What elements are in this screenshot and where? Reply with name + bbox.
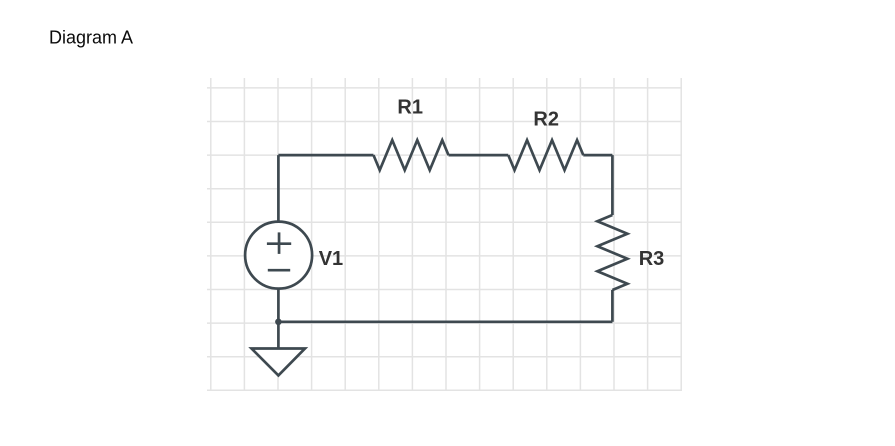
svg-text:R2: R2 (533, 108, 559, 130)
junction node (275, 319, 282, 326)
svg-text:Diagram A: Diagram A (49, 28, 133, 48)
voltage source V1 (245, 222, 312, 289)
wire: right vertical from R3 to bottom corner (611, 290, 614, 322)
background grid (decorative) (207, 78, 682, 390)
wire: bottom horizontal (278, 320, 612, 323)
ground (252, 349, 306, 376)
svg-text:R3: R3 (639, 248, 665, 270)
wire: V1 bottom to ground (277, 289, 280, 349)
wire: right vertical down to R3 (611, 155, 614, 215)
svg-text:V1: V1 (319, 248, 343, 270)
resistor R1 (374, 140, 449, 170)
wire: top segment from left corner to R1 (278, 154, 373, 157)
wire: left vertical (top corner to V1 top) (277, 155, 280, 222)
resistor R3 (597, 215, 627, 290)
resistor R2 (508, 140, 583, 170)
wire: top segment between R1 and R2 (449, 154, 509, 157)
wire: top segment from R2 to right corner (583, 154, 612, 157)
svg-text:R1: R1 (397, 97, 423, 119)
